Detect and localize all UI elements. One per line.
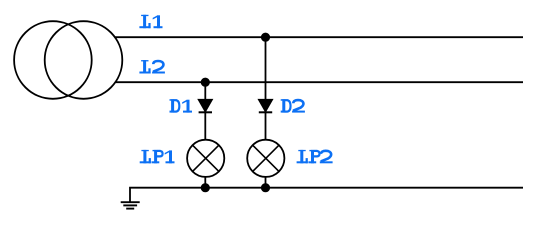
label LP1 [140,150,175,163]
node junction lamp2/bottom [261,183,270,192]
label LP2 [297,150,333,163]
wire branch D1 (vertical) [204,82,206,188]
label L2 [139,60,165,73]
label L1 [139,15,162,28]
label D1 [170,99,193,112]
node junction on L2 [201,78,210,87]
node junction lamp1/bottom [201,183,210,192]
wire branch D2 (vertical) [265,37,267,188]
transformer T1 [14,21,122,99]
ground [121,202,140,208]
label D2 [281,99,305,112]
wire L2 [115,81,523,83]
lamp LP2 [247,140,284,177]
node junction on L1 [261,33,270,42]
diode D2 [258,99,272,112]
lamp LP1 [187,140,224,177]
diode D1 [198,99,212,112]
wire bottom [130,188,523,203]
wire L1 [114,36,523,38]
